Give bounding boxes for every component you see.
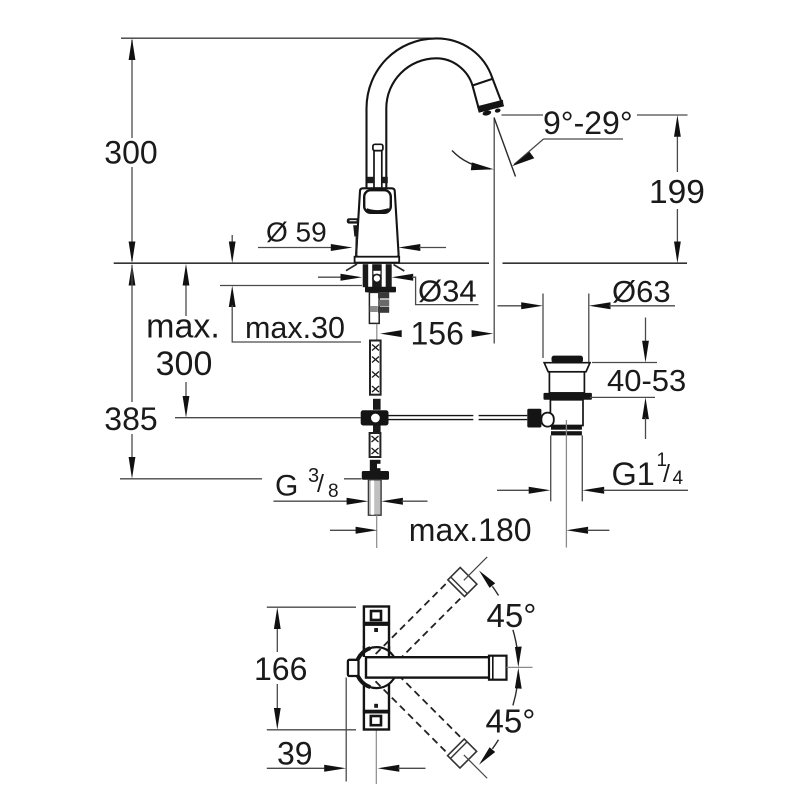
svg-text:199: 199 [649,174,705,211]
flexible hose [368,480,381,515]
boss left crescent [356,648,370,687]
body left shade strip [355,237,358,257]
oblique extension tick right [394,265,405,272]
bracket divider band top [363,622,390,626]
dimension 199 line [676,136,678,242]
dimension D34 right arrow and leader [392,274,414,281]
dimension 156 left arrow [380,330,402,337]
hose end extension line [120,478,262,480]
45 deg arc upper segment a [492,586,498,595]
svg-text:156: 156 [411,316,464,352]
wire [479,415,528,417]
40-53 extension line lower [590,396,655,398]
dimension 40-53 lower shaft [642,397,649,419]
rotated spout up 45 (dashed) [367,549,496,678]
drain locknut [544,393,592,400]
pop-up rod ball housing [361,410,389,425]
plan lever tab [348,660,359,676]
aerator housing [473,79,503,112]
svg-text:45°: 45° [486,703,536,740]
rod clevis block [527,409,541,428]
dimension D59 right arrow [399,244,421,251]
hose centerline [376,515,378,548]
dimension 199 arrow down [674,242,681,264]
dimension 39 left arrow [324,765,346,772]
leader arrowhead 9-29 [512,152,535,167]
countertop line [114,262,489,264]
39 extension centerline [375,730,377,784]
tailpipe wall right [581,435,583,501]
svg-text:max.: max. [146,308,220,346]
oblique extension tick left [346,264,357,271]
hourglass upper arrowhead [515,647,522,668]
base plate [355,257,400,263]
svg-text:300: 300 [104,135,157,171]
counter underside line [220,285,362,287]
dimension max.300 line [185,285,187,396]
40-53 extension line upper [592,362,657,364]
svg-text:G: G [275,470,298,503]
bottom screw dot [374,704,378,708]
bracket edge over boss left [363,646,365,657]
svg-text:/: / [663,460,670,488]
plan spout tube [366,657,494,677]
body outline [356,188,398,257]
dimension 166 extension top [267,606,356,608]
pop-up rod horizontal [387,415,473,417]
dimension 166 arrow up [274,607,281,629]
dimension G3/8 right arrow [381,498,403,505]
plan centerline [507,666,533,668]
dimension 39 right arrow [378,765,400,772]
D63 underline tail [609,305,675,307]
svg-text:max.30: max.30 [245,311,345,345]
water stream direction line [494,118,516,177]
swivel arc arrowhead [471,162,494,170]
shank center white band [373,271,380,275]
rod gap centerline [376,324,378,341]
dimension 385 line [131,265,133,457]
svg-text:G1: G1 [612,456,655,492]
dimension max.300 arrow up [183,264,190,286]
svg-text:39: 39 [277,736,313,772]
bottom screw hole [371,716,381,725]
shank center column [372,264,382,287]
dimension 199 arrow up [674,115,681,137]
spout inner curve [386,58,472,188]
spout outer curve [367,38,493,188]
drain body [550,400,583,426]
threaded section 2 [370,341,381,395]
dimension 166 arrow down [274,708,281,730]
ball joint circle [370,413,381,424]
svg-text:/: / [317,470,324,498]
dimension max.300 arrow down [183,396,190,418]
rod stub below ball [373,426,381,434]
compression band [551,426,582,430]
swivel arc arrow [452,151,490,170]
dimension max.180 left arrow [330,529,359,531]
mounting nut [365,287,396,293]
drain extension line left [542,294,544,359]
aerator outlet face [478,101,503,112]
upper arc top arrowhead [479,571,495,588]
svg-text:45°: 45° [487,597,537,634]
hose nut [362,471,389,480]
top reference line (spout height datum) [121,37,432,39]
clevis pivot [541,413,553,427]
leader diagonal for 9-29 [514,139,544,165]
rod side nub right [382,177,388,183]
aerator mesh dots [482,110,492,117]
handle cutout [364,190,391,213]
dimension 385 arrow down [129,457,136,479]
threaded section 3 [370,433,381,457]
plan aerator cap [489,656,507,680]
pop-up plug cap [552,356,584,363]
45 deg arc lower segment b [492,740,498,749]
dimension D63 right arrow [589,302,611,309]
drain extension line right [588,294,590,363]
dimension D59 tail and label [258,247,334,249]
handle rod [373,144,383,150]
bracket divider band bottom [363,710,390,714]
drain flange neck [549,372,584,393]
dimension 385 top arrow [129,264,136,286]
svg-text:Ø63: Ø63 [612,274,671,309]
svg-text:8: 8 [328,481,339,502]
tailpipe centerline [565,420,567,548]
drain flange rim [544,363,590,372]
dimension 300 arrow down [129,242,136,264]
spout outlet extension line [493,118,495,344]
top screw hole [371,611,381,620]
dimension 166 line [276,627,278,709]
svg-text:40-53: 40-53 [607,363,686,398]
svg-text:9°-29°: 9°-29° [543,105,633,141]
supply connection extension line [175,417,361,419]
svg-text:166: 166 [254,651,307,687]
45 deg arc upper segment b [513,630,517,649]
45 deg arc lower segment a [513,686,517,705]
dimension 300 arrow up [129,38,136,60]
svg-text:Ø34: Ø34 [418,274,477,309]
dimension D63 left arrow [498,305,525,307]
svg-text:385: 385 [104,401,157,437]
lower arc bottom arrowhead [479,747,495,764]
dimension max.180 right arrow [566,527,588,534]
handle cutout bottom shade [367,210,390,212]
body boss circle [356,647,397,688]
dimension 166 extension bottom [267,729,356,731]
dimension 39 line [267,767,328,769]
rotated spout down 45 (dashed) [366,658,495,787]
dimension G3/8 tail line [273,500,347,502]
aerator height extension line [502,114,544,116]
hourglass lower arrowhead [515,668,522,689]
shank right wall [386,264,392,287]
svg-text:300: 300 [156,345,213,383]
lever tab wedge [353,225,358,236]
leader underline for 9-29 [544,138,624,140]
39 extension line left (tab edge) [345,678,347,782]
shank center circle [373,274,381,282]
top screw dot [374,628,378,632]
bracket edge over boss right [388,646,390,657]
rod side nub left [367,177,373,183]
dimension 156 right arrow [472,330,494,337]
threaded section 1 [369,292,389,323]
dimension 40-53 upper shaft [645,318,647,343]
hose coupling block [370,460,381,473]
tailpipe wall left [550,435,552,501]
dimension D59 left arrow [331,244,353,251]
svg-text:max.180: max.180 [409,512,532,548]
shank left wall [363,264,369,287]
dimension D34 left arrow with tail [318,276,342,278]
mounting bracket outline [364,607,389,730]
rod stub above ball [373,399,381,410]
dimension 300 line [131,40,133,261]
lever tab [347,218,359,223]
dimension G1 1/4 arrows [497,489,532,491]
dimension max.30 upper arrow [231,235,233,242]
dimension G3/8 left arrow [347,498,369,505]
svg-text:4: 4 [673,468,684,489]
dimension max.30 lower arrow and leader [229,286,236,308]
svg-text:Ø 59: Ø 59 [266,217,327,248]
